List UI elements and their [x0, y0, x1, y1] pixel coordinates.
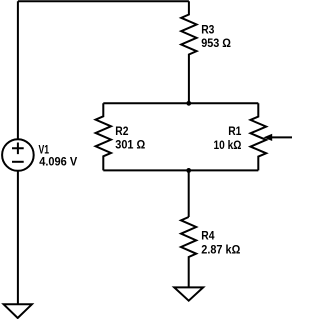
wire left vertical	[17, 1, 19, 139]
resistor R3	[181, 1, 196, 103]
wire bottom horizontal	[103, 169, 258, 171]
wire top horizontal	[18, 0, 189, 2]
svg-text:R3: R3	[201, 22, 214, 36]
node A junction dot	[186, 101, 191, 106]
wire middle horizontal	[103, 102, 258, 104]
node B junction dot	[186, 168, 191, 173]
svg-text:R4: R4	[201, 229, 214, 243]
ground right	[174, 287, 203, 300]
svg-text:R1: R1	[228, 124, 241, 138]
wire node to R4	[188, 170, 190, 217]
voltage source V1	[2, 139, 34, 171]
svg-text:R2: R2	[115, 124, 128, 138]
svg-text:953 Ω: 953 Ω	[201, 36, 231, 50]
resistor R2	[96, 103, 111, 170]
svg-text:4.096 V: 4.096 V	[39, 155, 77, 169]
wiper arrowhead R1	[264, 134, 273, 141]
svg-text:10 kΩ: 10 kΩ	[214, 138, 242, 152]
ground left	[4, 304, 32, 318]
wire V1 to ground	[17, 171, 19, 304]
wiper arm R1	[269, 136, 292, 138]
resistor R4	[181, 217, 196, 287]
svg-text:301 Ω: 301 Ω	[115, 138, 145, 152]
svg-text:2.87 kΩ: 2.87 kΩ	[201, 242, 240, 256]
potentiometer R1	[251, 103, 267, 170]
